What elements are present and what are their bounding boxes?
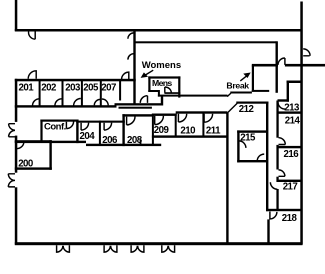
svg-text:201: 201 bbox=[19, 82, 35, 93]
door arc conf bbox=[66, 121, 73, 128]
wall mens step bbox=[158, 90, 160, 97]
door arc 201 bbox=[33, 99, 40, 106]
wall 204-206 top bbox=[76, 121, 125, 123]
wall separator 216-217 bbox=[277, 180, 303, 182]
wall 212 left tall bbox=[226, 113, 228, 245]
svg-text:218: 218 bbox=[282, 213, 298, 224]
wall conf-204 bottom bbox=[15, 141, 86, 143]
door butterfly bottom 3 bbox=[131, 245, 144, 252]
door arc break-right room bbox=[278, 58, 285, 65]
wall room200 bottom bbox=[15, 167, 52, 169]
svg-text:216: 216 bbox=[284, 149, 300, 160]
wall 218 left bbox=[267, 219, 269, 244]
door arc mens-left corridor bbox=[140, 96, 147, 103]
door arc 214 bbox=[279, 138, 286, 145]
door arc 218 bbox=[270, 212, 277, 219]
wall break left bbox=[252, 65, 254, 91]
svg-text:213: 213 bbox=[284, 102, 300, 113]
wall corridor east b bbox=[276, 145, 278, 170]
wall conf left bbox=[40, 120, 42, 143]
door arc top wall x33 bbox=[29, 32, 36, 40]
wall right outer bbox=[300, 2, 303, 245]
door butterfly bottom 1 bbox=[57, 245, 70, 252]
wall 206-208 bottom bbox=[86, 144, 161, 146]
wall under mens bbox=[158, 95, 228, 97]
wall corridor lower line bbox=[119, 107, 152, 109]
svg-text:204: 204 bbox=[80, 131, 96, 142]
wall left outer middle bbox=[15, 136, 17, 173]
wall separator 205-207 bbox=[100, 81, 102, 107]
arrow break bbox=[240, 76, 246, 81]
door arc 203 bbox=[74, 99, 81, 106]
door butterfly left wall 2 bbox=[8, 174, 15, 187]
wall corridor east a bbox=[276, 101, 278, 138]
wall 208 top bbox=[122, 114, 153, 116]
arrow womens bbox=[146, 70, 154, 75]
wall mens right bbox=[178, 76, 180, 97]
wall 204-206 divider bbox=[99, 121, 101, 145]
door arc 216 bbox=[279, 170, 285, 176]
door butterfly bottom 4 bbox=[162, 245, 175, 252]
wall 206-208 divider bbox=[122, 114, 124, 146]
door arc 207 bbox=[102, 99, 108, 105]
wall separator 202-203 bbox=[62, 81, 64, 107]
door arc 213 bbox=[278, 102, 285, 109]
svg-text:208: 208 bbox=[127, 135, 143, 146]
door arc 208 bbox=[127, 117, 135, 125]
wall to break bbox=[230, 92, 252, 94]
svg-text:212: 212 bbox=[239, 104, 254, 115]
svg-text:Mens: Mens bbox=[152, 78, 172, 88]
door arc 215 left bbox=[239, 141, 246, 148]
wall conf-204 divider bbox=[76, 120, 78, 144]
door arc womens lower bbox=[128, 54, 134, 60]
door arc 210 bbox=[178, 114, 186, 122]
svg-text:200: 200 bbox=[18, 158, 33, 169]
wall separator 203-205 bbox=[81, 81, 83, 107]
wall corridor east c bbox=[276, 177, 278, 182]
wall y65 right bbox=[285, 64, 325, 67]
door arc 209 bbox=[155, 116, 164, 125]
door arc 215 bottom bbox=[257, 154, 264, 161]
wall 210-211 top bbox=[176, 111, 228, 113]
svg-text:Conf.: Conf. bbox=[44, 121, 66, 132]
wall mens bottom-left bbox=[148, 90, 159, 92]
wall mens bottom-right bbox=[164, 92, 180, 94]
door arc 200 bbox=[17, 142, 24, 149]
door arc right wall x301 bbox=[303, 49, 310, 56]
wall separator 209-210 bbox=[175, 114, 177, 137]
svg-text:206: 206 bbox=[102, 135, 118, 146]
wall conf top bbox=[40, 120, 78, 122]
svg-text:214: 214 bbox=[285, 116, 301, 127]
wall 212 chamfer bbox=[226, 103, 237, 114]
svg-text:203: 203 bbox=[65, 82, 81, 93]
svg-text:207: 207 bbox=[101, 82, 116, 93]
wall break right bbox=[276, 41, 278, 93]
svg-text:202: 202 bbox=[41, 82, 56, 93]
wall row2 bottom bbox=[152, 135, 229, 137]
wall mens left bbox=[148, 76, 150, 91]
wall top-left stub bbox=[15, 0, 17, 31]
wall y65 left bbox=[252, 64, 278, 67]
wall corridor second top line bbox=[134, 41, 277, 43]
wall break bottom bbox=[252, 90, 269, 92]
door butterfly left wall 1 bbox=[9, 124, 15, 137]
wall 213 z lower bbox=[278, 99, 290, 101]
wall top bbox=[15, 29, 303, 32]
wall 213 z vertical bbox=[287, 81, 289, 102]
wall room200 right bbox=[49, 140, 51, 170]
wall 209 left bbox=[152, 114, 154, 145]
svg-text:Break: Break bbox=[226, 81, 249, 91]
wall separator 217-218 bbox=[266, 209, 303, 211]
svg-text:209: 209 bbox=[154, 125, 170, 136]
door arc womens upper bbox=[128, 33, 134, 39]
wall 215 bottom bbox=[237, 160, 266, 162]
wall row1 top bbox=[15, 79, 136, 82]
door arc 217 bbox=[270, 182, 277, 189]
door arc 202 bbox=[55, 99, 62, 106]
door arc 204 bbox=[81, 123, 89, 131]
svg-text:Womens: Womens bbox=[142, 60, 181, 71]
svg-text:211: 211 bbox=[206, 125, 221, 136]
wall separator 201-202 bbox=[39, 81, 41, 107]
wall separator 214-216 bbox=[277, 146, 303, 148]
door arc above 207 vestibule bbox=[122, 72, 129, 79]
door butterfly bottom 2 bbox=[104, 245, 117, 252]
door arc 211 bbox=[204, 114, 213, 123]
door arc above 201 bbox=[28, 71, 36, 79]
wall mens top bbox=[148, 76, 180, 78]
wall 212 top bbox=[236, 102, 268, 104]
wall bottom outer bbox=[15, 242, 303, 245]
wall room200 top bbox=[15, 140, 52, 142]
wall connector x162 bbox=[161, 96, 163, 106]
door arc 205 bbox=[94, 99, 100, 105]
wall left outer lower bbox=[15, 187, 17, 244]
wall jog diagonal bbox=[227, 93, 231, 96]
wall mid vertical x134 bbox=[133, 29, 135, 105]
wall separator 210-211 bbox=[202, 113, 204, 137]
svg-text:205: 205 bbox=[83, 82, 99, 93]
wall 213 z top bbox=[287, 81, 303, 84]
wall row1 bottom left bbox=[15, 105, 117, 107]
svg-text:215: 215 bbox=[240, 132, 256, 143]
wall separator 213-214 bbox=[277, 111, 303, 113]
wall corridor east d bbox=[276, 189, 278, 211]
wall 209 top bbox=[152, 114, 177, 116]
door arc mens bbox=[165, 87, 172, 93]
wall 207 right bbox=[119, 81, 121, 101]
wall 215 left bbox=[237, 130, 239, 162]
door arc 206 bbox=[104, 123, 112, 131]
wall corridor top bbox=[115, 103, 164, 105]
svg-text:217: 217 bbox=[283, 181, 298, 192]
svg-text:210: 210 bbox=[180, 125, 195, 136]
wall 215 top bbox=[237, 130, 266, 132]
wall corridor west bbox=[266, 102, 268, 212]
door leaf tick 208 bbox=[140, 140, 142, 144]
wall left outer upper bbox=[15, 79, 17, 122]
